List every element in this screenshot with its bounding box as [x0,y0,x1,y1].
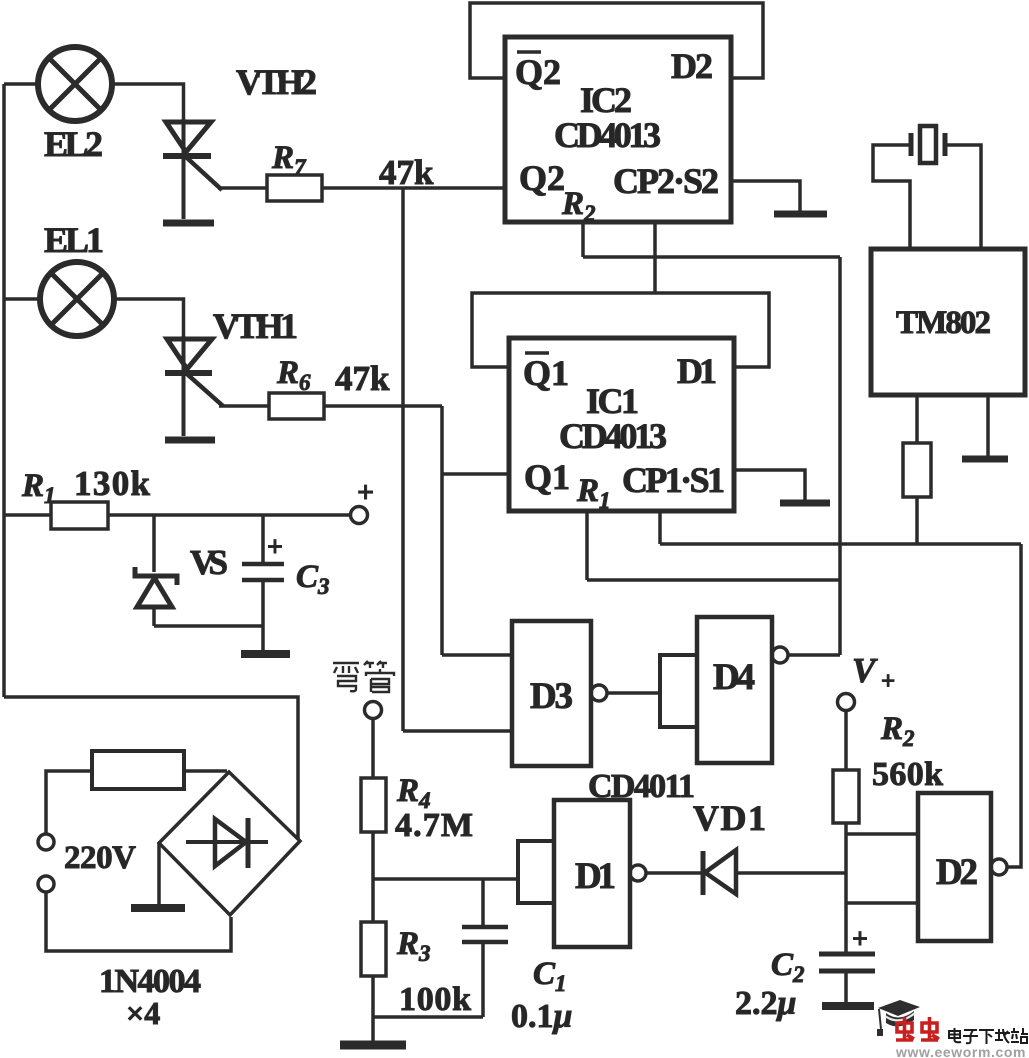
thyristor VTH1 [165,336,223,440]
svg-text:100k: 100k [399,981,471,1018]
wire CP1 bus to D2 output vertical [660,542,1021,546]
wire VTH2 gate to R7 [218,186,267,190]
resistor R3 [361,922,386,976]
bridge rectifier diamond [159,772,300,915]
wire R7 to IC2 Q2 [322,186,505,190]
wire junction drop to D3 input B [401,188,405,731]
svg-text:+: + [267,532,283,563]
wire lamp EL1 left lead [4,297,40,301]
wire bridge left vertex to ground [157,843,161,905]
capacitor C3 [242,515,284,651]
diode VD1 [703,850,736,895]
wire R1 pin to right vertical bus [587,578,840,582]
svg-text:V: V [852,651,878,690]
svg-text:Q2: Q2 [515,52,561,92]
wire CP2.S2 to ground [731,181,800,211]
wire V+ to R2 [844,710,848,770]
svg-text:CD4013: CD4013 [554,115,661,155]
ground (R3) [340,1041,406,1050]
svg-text:Q1: Q1 [524,457,570,497]
wire lamp EL1 to VTH1 [114,299,184,336]
wire IC1 feedback loop Q1bar to D1 [472,293,769,367]
wire fuse to bridge top [184,769,227,773]
svg-text:47k: 47k [379,153,434,192]
svg-text:47k: 47k [335,359,390,398]
svg-text:VTH2: VTH2 [236,62,317,102]
svg-text:CP2·S2: CP2·S2 [613,161,719,201]
wire D2 output to CP1 bus [1007,544,1021,867]
svg-text:C2: C2 [771,947,805,987]
resistor R7 [267,175,322,201]
svg-text:220V: 220V [64,840,136,876]
wire left AC bus [2,84,6,697]
wire to D3 input A [442,653,512,657]
svg-text:C3: C3 [296,559,330,599]
wire node to D1 input [373,877,518,881]
wire IC2 feedback loop Q2bar to D2 [470,3,763,78]
resistor R2 [833,770,859,823]
svg-text:+: + [357,476,374,509]
bubble D1 output [630,865,646,881]
IC1 CD4013 [509,338,734,511]
wire R2 to node [844,823,848,953]
wire D1 output to VD1 [646,871,701,875]
wire IC1 CP1 pin down [658,511,662,544]
wire node to D2 input A [846,832,918,836]
terminal + output [351,507,368,524]
svg-text:www.eeworm.com: www.eeworm.com [895,1044,1027,1058]
svg-text:0.1μ: 0.1μ [511,998,572,1035]
wire VD1 to node [737,871,846,875]
label wan-guan (bend-pipe) char1 [333,663,359,691]
wire C1 bottom to R3 bottom [373,1015,483,1019]
label Q1-bar (pin) [523,353,569,393]
svg-text:R1: R1 [576,473,611,513]
svg-text:D3: D3 [530,676,573,717]
svg-text:D2: D2 [671,46,713,86]
wire lower terminal to bridge bottom [46,892,231,951]
wire R2 pin bus to right vertical [583,255,840,259]
svg-text:IC1: IC1 [586,381,639,421]
svg-text:R2: R2 [561,186,596,226]
resistor R4 [361,778,386,832]
ground (C3) [241,650,290,658]
svg-text:CD4013: CD4013 [559,416,667,456]
wire D3 to D4 [607,691,660,695]
wire R1 to + terminal [108,513,351,517]
ground (CP2.S2) [774,211,827,218]
wire fuse to terminal [46,771,92,834]
ground (bridge) [131,904,185,912]
svg-text:R6: R6 [276,355,311,395]
IC TM802 [871,249,1025,395]
svg-text:R3: R3 [396,926,431,966]
svg-text:TM802: TM802 [896,305,991,341]
resistor R6 [269,393,324,419]
ground (CP1.S1) [780,500,830,507]
watermark chong char2 (red) [921,1017,939,1040]
gate D1 [554,800,630,947]
wire Q1 stub [442,472,509,476]
svg-text:D1: D1 [575,856,616,897]
svg-text:D1: D1 [677,351,717,391]
svg-text:EL2: EL2 [44,124,103,164]
wire right vertical bus to D4 output [838,257,842,655]
wire TM802 to resistor [915,395,919,443]
svg-text:4.7M: 4.7M [395,807,473,844]
resistor (TM802) [903,443,931,497]
wire TM802 right pin to ground [986,395,990,456]
wire IC1 R1 pin down [585,511,589,580]
svg-text:×4: ×4 [126,995,160,1031]
watermark chong char1 (red) [896,1017,914,1040]
wire R4 to R3 [371,832,375,922]
svg-text:VTH1: VTH1 [213,306,298,346]
wire IC2 R2 pin down [581,222,585,257]
wire VTH1 gate to R6 [219,404,269,408]
bubble D2 output [991,859,1007,875]
svg-text:Q2: Q2 [519,158,565,198]
wire lamp EL2 left lead [4,82,39,86]
svg-text:D2: D2 [936,852,978,893]
svg-text:CP1·S1: CP1·S1 [622,460,725,500]
svg-text:R1: R1 [21,468,56,508]
svg-text:R2: R2 [880,711,915,751]
svg-text:+: + [852,924,868,955]
wire AC bus to bridge [4,697,298,839]
wire R3 to ground [371,976,375,1042]
gate D4 input stub [660,655,697,727]
svg-text:R7: R7 [271,140,307,180]
svg-text:Q1: Q1 [523,353,569,393]
gate D1 input stub [518,841,554,903]
wire VS to C3 bottom [154,624,263,628]
label wan-guan (bend-pipe) char2 [364,661,394,692]
resistor R1 [51,502,108,529]
svg-text:C1: C1 [533,956,567,996]
IC2 CD4013 [505,37,731,222]
svg-text:D4: D4 [713,657,755,698]
wire piezo left to TM802 [873,145,911,249]
terminal 220V lower [38,876,54,892]
capacitor C2 [819,954,875,1003]
wire piezo right to TM802 [945,145,981,249]
wire CP1.S1 to ground [734,470,805,500]
svg-text:VS: VS [190,543,228,582]
wire lamp EL2 to VTH2 [112,84,184,119]
terminal V+ [838,694,855,711]
bridge diode 1N4004 [186,818,268,868]
wire D4 output to bus [788,653,840,657]
watermark text dian-zi-xia-zai-zhan [949,1028,1028,1044]
svg-text:+: + [881,668,895,695]
svg-text:130k: 130k [74,464,151,503]
piezo sounder [911,126,945,163]
zener VS [135,515,177,626]
wire IC2 CP2 pin down to IC1 loop [653,222,657,293]
terminal wan-guan [365,702,382,719]
bubble D4 output [772,647,788,663]
gate D2 [918,793,991,941]
gate D3 [512,621,591,766]
wire resistor to CP1 bus [915,497,919,544]
wire to D3 input B [403,729,512,733]
ground (TM802) [962,456,1008,463]
lamp EL1 [40,262,114,336]
svg-text:IC2: IC2 [580,80,632,120]
wire R6 to node [324,404,442,408]
capacitor C1 [462,879,508,1017]
wire R1 left [4,513,51,517]
lamp EL2 [38,47,112,121]
terminal 220V upper [38,834,54,850]
thyristor VTH2 [163,119,222,223]
svg-text:EL1: EL1 [44,220,104,260]
svg-text:VD1: VD1 [693,798,766,838]
fuse box [92,751,184,789]
gate D4 [697,617,772,763]
watermark graduation cap [877,1000,920,1036]
svg-text:560k: 560k [872,756,943,793]
ground (C2) [822,1002,874,1010]
wire node drop to D3 input A [440,406,444,655]
bubble D3 output [591,685,607,701]
svg-text:2.2μ: 2.2μ [735,985,796,1022]
label Q2-bar (pin) [515,52,561,92]
wire node to D2 input B [846,901,918,905]
wire terminal to R4 [371,718,375,778]
